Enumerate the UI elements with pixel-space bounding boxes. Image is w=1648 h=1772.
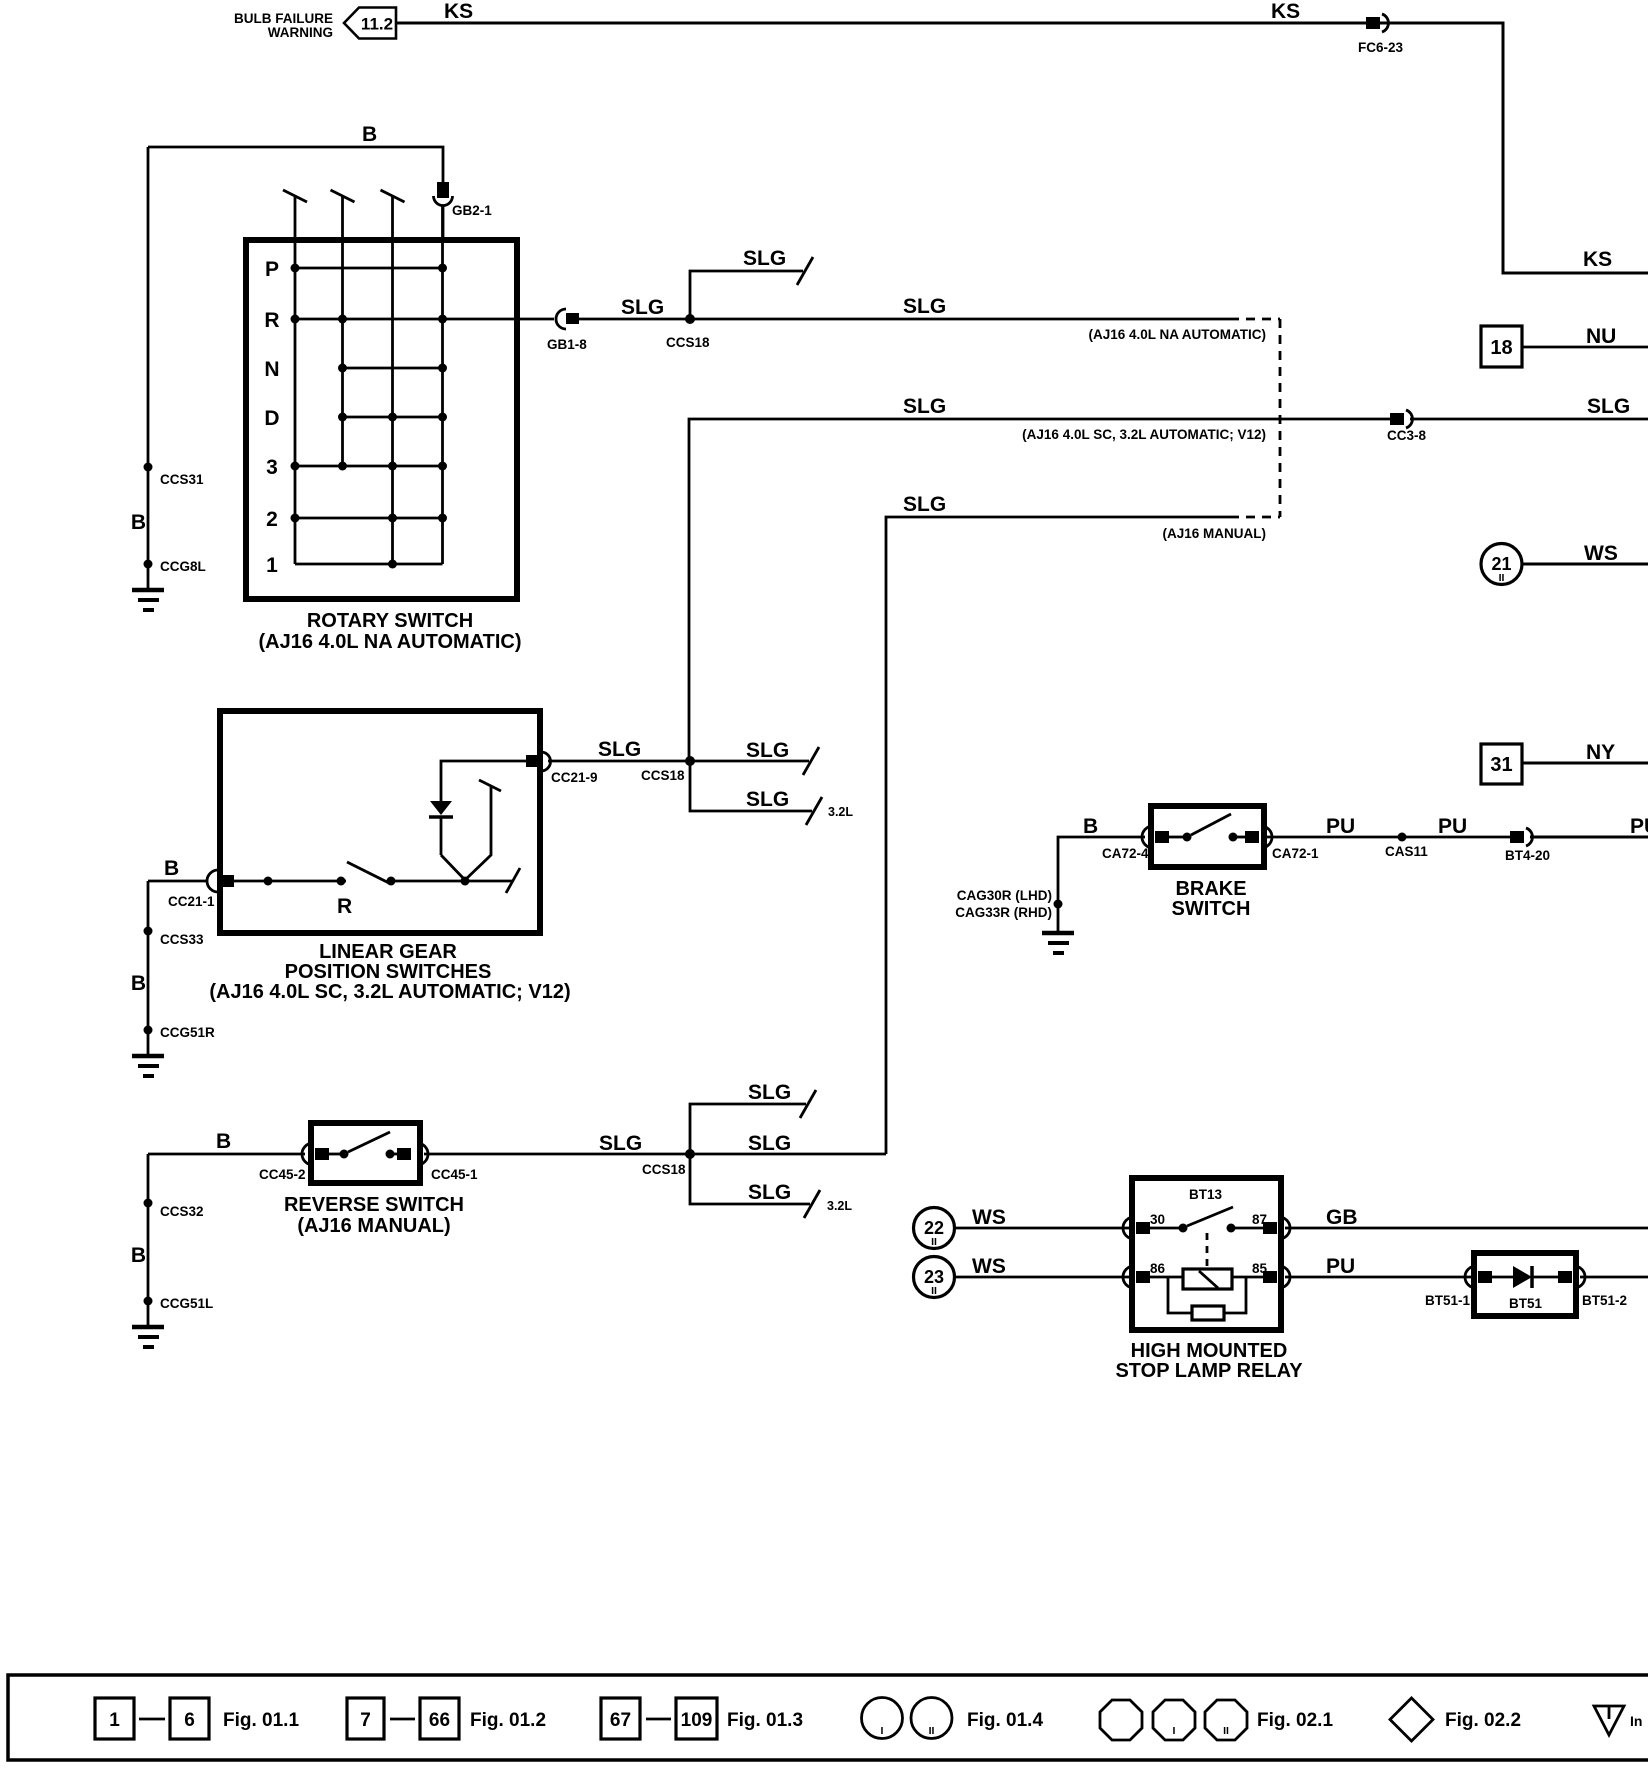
svg-text:P: P (265, 258, 279, 281)
svg-text:21: 21 (1491, 554, 1511, 574)
wire continuation slash (row A stub) (797, 257, 813, 285)
legend octagon (1100, 1700, 1142, 1740)
wire SLG stub 3.2L (690, 1154, 810, 1204)
svg-text:(AJ16 4.0L NA AUTOMATIC): (AJ16 4.0L NA AUTOMATIC) (259, 631, 522, 653)
wire WS (23) (955, 1276, 1133, 1279)
switch blade (R contact) (347, 862, 389, 883)
svg-text:(AJ16 MANUAL): (AJ16 MANUAL) (1162, 526, 1266, 541)
svg-text:SLG: SLG (598, 738, 641, 761)
switch blade (3.2L contact) (479, 780, 501, 791)
svg-text:Fig. 01.3: Fig. 01.3 (727, 1710, 803, 1731)
node CCS18 (row B fan) (685, 756, 695, 766)
svg-text:II: II (1499, 572, 1505, 584)
pin 30 (box pin) (1123, 1217, 1134, 1239)
wire SLG from GB1-8 to CCS18 (579, 318, 690, 321)
wire B rail (reverse) (147, 1154, 150, 1326)
svg-text:LINEAR GEAR: LINEAR GEAR (319, 941, 457, 963)
legend link (390, 1718, 415, 1721)
connector CC45-1 (box pin) (397, 1148, 411, 1160)
svg-text:Fig. 01.1: Fig. 01.1 (223, 1710, 299, 1731)
svg-text:ROTARY SWITCH: ROTARY SWITCH (307, 610, 473, 632)
svg-text:66: 66 (429, 1710, 450, 1731)
node CCG8L (144, 560, 153, 569)
wire B left rail (147, 147, 150, 589)
svg-text:Fig. 02.1: Fig. 02.1 (1257, 1710, 1333, 1731)
svg-text:SWITCH: SWITCH (1172, 898, 1251, 920)
connector CC21-9 (box pin) (526, 755, 540, 767)
legend diamond (1390, 1698, 1433, 1741)
wire SLG stub branch (row A up) (690, 271, 803, 319)
connector CC3-8 (1390, 413, 1404, 425)
svg-text:23: 23 (924, 1267, 944, 1287)
legend box 109 (676, 1698, 717, 1739)
wire SLG stub right (690, 760, 809, 763)
svg-text:SLG: SLG (903, 395, 946, 418)
rotary switch box (246, 240, 517, 599)
legend inverted triangle (1594, 1706, 1624, 1735)
wire SLG main to row C riser (690, 1153, 886, 1156)
relay coil wiring (1150, 1276, 1183, 1279)
svg-text:CCG51R: CCG51R (160, 1025, 215, 1040)
high mounted stop lamp relay box (1132, 1178, 1281, 1330)
wire B feed (top) (148, 147, 443, 182)
suppression resistor loop (1168, 1277, 1192, 1313)
svg-text:GB: GB (1326, 1206, 1358, 1229)
svg-text:BRAKE: BRAKE (1175, 878, 1246, 900)
diode (linear gear) (430, 801, 452, 815)
connector CA72-4 (box pin) (1142, 826, 1153, 848)
svg-text:GB1-8: GB1-8 (547, 337, 587, 352)
node CAG30R/CAG33R (1054, 900, 1063, 909)
wire B feed to CC21-1 (148, 880, 207, 883)
svg-text:D: D (264, 407, 279, 430)
svg-text:CCS33: CCS33 (160, 932, 204, 947)
svg-text:POSITION SWITCHES: POSITION SWITCHES (285, 961, 492, 983)
node CAS11 (1398, 833, 1407, 842)
svg-text:PU: PU (1438, 815, 1467, 838)
svg-text:86: 86 (1150, 1261, 1166, 1276)
svg-text:Fig. 02.2: Fig. 02.2 (1445, 1710, 1521, 1731)
wire SLG stub 3.2L (690, 761, 812, 811)
svg-text:3.2L: 3.2L (827, 1199, 852, 1213)
connector GB1-8 (556, 309, 566, 329)
legend box 67 (601, 1698, 640, 1739)
switch blade col1 (294, 197, 297, 564)
relay actuator dashed link (1206, 1233, 1209, 1268)
svg-text:NY: NY (1586, 741, 1615, 764)
connector CC45-2 (box pin) (302, 1143, 313, 1165)
svg-text:B: B (131, 1244, 146, 1267)
wire WS (22) (955, 1227, 1133, 1230)
svg-text:(AJ16 4.0L SC, 3.2L AUTOMATIC;: (AJ16 4.0L SC, 3.2L AUTOMATIC; V12) (1022, 427, 1266, 442)
diode assembly box BT51 (1474, 1253, 1576, 1316)
connector FC6-23 (1366, 17, 1380, 29)
svg-text:CAG33R (RHD): CAG33R (RHD) (955, 905, 1052, 920)
svg-text:2: 2 (266, 508, 278, 531)
svg-text:B: B (164, 857, 179, 880)
splice circle 23 (914, 1257, 955, 1298)
splice box 18 (1481, 326, 1522, 367)
svg-text:31: 31 (1490, 754, 1512, 776)
svg-text:PU: PU (1630, 815, 1648, 838)
svg-text:STOP LAMP RELAY: STOP LAMP RELAY (1115, 1360, 1303, 1382)
svg-text:WARNING: WARNING (268, 25, 333, 40)
wire col4 (GB2-1 feed) (441, 205, 444, 564)
legend link (646, 1718, 671, 1721)
ground (reverse rail) (132, 1325, 164, 1330)
svg-text:I: I (1173, 1725, 1176, 1737)
legend box 6 (170, 1698, 209, 1739)
svg-text:BT4-20: BT4-20 (1505, 848, 1550, 863)
switch blade col3 (391, 197, 394, 564)
off-page arrow 11.2 (344, 8, 396, 39)
svg-text:CCS18: CCS18 (641, 768, 685, 783)
wire V junction to switch row (441, 787, 491, 880)
svg-text:II: II (929, 1725, 935, 1737)
svg-text:N: N (264, 358, 279, 381)
svg-text:SLG: SLG (903, 493, 946, 516)
svg-text:1: 1 (266, 554, 278, 577)
resistor (relay) (1192, 1306, 1224, 1320)
relay coil BT13 (1183, 1269, 1232, 1289)
wire NU (1522, 346, 1648, 349)
svg-text:WS: WS (972, 1255, 1006, 1278)
svg-text:SLG: SLG (746, 788, 789, 811)
svg-text:In: In (1630, 1713, 1642, 1729)
legend frame (8, 1675, 1648, 1760)
svg-text:KS: KS (1583, 248, 1612, 271)
switch row wire with contacts (234, 880, 346, 883)
node CCG51R (144, 1026, 153, 1035)
svg-text:(AJ16 4.0L SC, 3.2L AUTOMATIC;: (AJ16 4.0L SC, 3.2L AUTOMATIC; V12) (209, 981, 570, 1003)
node CCS31 (144, 463, 153, 472)
svg-text:B: B (362, 123, 377, 146)
ground (rotary switch rail) (132, 588, 164, 593)
svg-text:85: 85 (1252, 1261, 1268, 1276)
connector CA72-1 (box pin) (1245, 831, 1259, 843)
svg-text:SLG: SLG (748, 1181, 791, 1204)
svg-text:CC3-8: CC3-8 (1387, 428, 1427, 443)
wire NY (1522, 762, 1648, 765)
wire PU from pin 85 (1285, 1276, 1472, 1279)
svg-text:SLG: SLG (746, 739, 789, 762)
legend link (139, 1718, 165, 1721)
svg-text:BT51-1: BT51-1 (1425, 1293, 1471, 1308)
wire to right edge (1580, 1276, 1648, 1279)
wire dashed variant link (1279, 319, 1282, 517)
svg-text:SLG: SLG (748, 1132, 791, 1155)
node CCS18 (row C fan) (685, 1149, 695, 1159)
svg-text:WS: WS (1584, 542, 1618, 565)
node CCS33 (144, 927, 153, 936)
svg-text:NU: NU (1586, 325, 1616, 348)
svg-text:CC21-9: CC21-9 (551, 770, 598, 785)
svg-text:R: R (337, 895, 352, 918)
connector BT51-2 (box pin) (1558, 1271, 1572, 1283)
svg-text:30: 30 (1150, 1212, 1165, 1227)
svg-text:CC45-2: CC45-2 (259, 1167, 306, 1182)
pin 85 (box pin) (1263, 1271, 1277, 1283)
wire continuation slash (row end) (506, 868, 520, 893)
connector GB2-1 (437, 182, 449, 198)
svg-text:CAS11: CAS11 (1385, 844, 1428, 859)
svg-text:I: I (881, 1725, 884, 1737)
wire continuation slash (3.2L stub) (804, 1190, 820, 1218)
svg-text:67: 67 (610, 1710, 631, 1731)
legend box 1 (95, 1698, 134, 1739)
svg-text:CC45-1: CC45-1 (431, 1167, 478, 1182)
svg-text:3.2L: 3.2L (828, 805, 853, 819)
linear gear position switches box (220, 711, 540, 933)
pin 87 (box pin) (1263, 1222, 1277, 1234)
splice circle 22 (914, 1208, 955, 1249)
switch blade col2 (341, 197, 344, 466)
svg-text:CCS18: CCS18 (666, 335, 710, 350)
svg-text:(AJ16 MANUAL): (AJ16 MANUAL) (297, 1215, 450, 1237)
svg-text:R: R (264, 309, 279, 332)
wire SLG row B (AJ16 4.0L SC, 3.2L AUTOMATIC; V12) (689, 419, 1392, 761)
svg-text:SLG: SLG (743, 247, 786, 270)
svg-text:CCS32: CCS32 (160, 1204, 204, 1219)
svg-text:3: 3 (266, 456, 278, 479)
ground (brake switch) (1042, 931, 1074, 936)
wire GB to right edge (1285, 1227, 1648, 1230)
svg-text:CCG8L: CCG8L (160, 559, 206, 574)
wire SLG from CC21-9 to CCS18 (548, 760, 690, 763)
switch contacts and blade (329, 1153, 341, 1156)
wire SLG stub up (690, 1104, 806, 1154)
svg-text:7: 7 (360, 1710, 371, 1731)
wire PU to right edge (1530, 836, 1648, 839)
wire B rail (linear) (147, 881, 150, 1055)
wire continuation slash (3.2L) (806, 797, 822, 825)
ground (linear rail) (132, 1054, 164, 1059)
relay switch contacts (1150, 1227, 1180, 1230)
legend circle I (862, 1698, 903, 1739)
brake switch box (1151, 806, 1264, 867)
svg-text:CA72-4: CA72-4 (1102, 846, 1149, 861)
svg-text:SLG: SLG (599, 1132, 642, 1155)
wire B feed to reverse switch (148, 1153, 305, 1156)
svg-text:CCS18: CCS18 (642, 1162, 686, 1177)
svg-text:BULB FAILURE: BULB FAILURE (234, 11, 333, 26)
svg-text:II: II (931, 1236, 937, 1248)
wire SLG row C (AJ16 MANUAL) (886, 517, 1230, 1154)
svg-text:(AJ16 4.0L NA AUTOMATIC): (AJ16 4.0L NA AUTOMATIC) (1088, 327, 1266, 342)
wire continuation slash (803, 747, 819, 775)
svg-text:6: 6 (184, 1710, 195, 1731)
svg-text:SLG: SLG (621, 296, 664, 319)
svg-text:BT51: BT51 (1509, 1296, 1543, 1311)
svg-text:WS: WS (972, 1206, 1006, 1229)
legend box 7 (347, 1698, 384, 1739)
node CCG51L (144, 1297, 153, 1306)
svg-text:KS: KS (444, 0, 473, 23)
svg-text:CA72-1: CA72-1 (1272, 846, 1319, 861)
pin 86 (box pin) (1123, 1266, 1134, 1288)
svg-text:11.2: 11.2 (361, 15, 393, 34)
splice box 31 (1481, 744, 1522, 784)
svg-text:BT51-2: BT51-2 (1582, 1293, 1627, 1308)
diode BT51 (1492, 1276, 1513, 1279)
svg-text:CCS31: CCS31 (160, 472, 204, 487)
svg-text:B: B (131, 511, 146, 534)
svg-text:1: 1 (109, 1710, 120, 1731)
svg-text:SLG: SLG (748, 1081, 791, 1104)
legend box 66 (420, 1698, 459, 1739)
connector BT51-1 (box pin) (1465, 1266, 1476, 1288)
wire B feed to brake switch (1058, 837, 1145, 932)
svg-text:SLG: SLG (1587, 395, 1630, 418)
svg-text:FC6-23: FC6-23 (1358, 40, 1404, 55)
svg-text:PU: PU (1326, 815, 1355, 838)
svg-text:CAG30R (LHD): CAG30R (LHD) (957, 888, 1052, 903)
svg-text:18: 18 (1490, 337, 1512, 359)
svg-text:Fig. 01.2: Fig. 01.2 (470, 1710, 546, 1731)
node CCS18 (row A) (685, 314, 695, 324)
wire continuation slash (up stub) (800, 1090, 816, 1118)
svg-text:SLG: SLG (903, 295, 946, 318)
wire WS (21) (1522, 563, 1648, 566)
svg-text:CC21-1: CC21-1 (168, 894, 215, 909)
svg-text:REVERSE SWITCH: REVERSE SWITCH (284, 1194, 464, 1216)
svg-text:B: B (1083, 815, 1098, 838)
wire SLG row B to right edge (1410, 418, 1648, 421)
svg-text:KS: KS (1271, 0, 1300, 23)
svg-text:CCG51L: CCG51L (160, 1296, 213, 1311)
svg-text:Fig. 01.4: Fig. 01.4 (967, 1710, 1043, 1731)
svg-text:BT13: BT13 (1189, 1187, 1223, 1202)
splice circle 21 (1481, 544, 1522, 585)
reverse switch box (311, 1123, 420, 1183)
legend octagon II (1205, 1700, 1247, 1740)
node CCS32 (144, 1199, 153, 1208)
svg-text:II: II (931, 1285, 937, 1297)
svg-text:HIGH MOUNTED: HIGH MOUNTED (1131, 1340, 1288, 1362)
svg-text:B: B (216, 1130, 231, 1153)
wire KS (top run) (396, 23, 1648, 273)
svg-text:II: II (1223, 1725, 1229, 1737)
svg-text:109: 109 (681, 1710, 713, 1731)
svg-text:22: 22 (924, 1218, 944, 1238)
diode (linear gear) wire from CC21-9 (441, 761, 526, 801)
switch contacts and blade (1169, 836, 1184, 839)
wire SLG row A (AJ16 4.0L NA AUTOMATIC) (690, 318, 1230, 321)
wire SLG from CC45-1 to CCS18 (424, 1153, 690, 1156)
legend circle II (911, 1698, 952, 1739)
svg-text:87: 87 (1252, 1212, 1267, 1227)
legend octagon I (1153, 1700, 1195, 1740)
svg-text:GB2-1: GB2-1 (452, 203, 492, 218)
svg-text:B: B (131, 972, 146, 995)
connector BT4-20 (1510, 831, 1524, 843)
wire PU from CA72-1 (1266, 836, 1510, 839)
svg-text:PU: PU (1326, 1255, 1355, 1278)
connector CC21-1 (box pin) (207, 870, 218, 892)
